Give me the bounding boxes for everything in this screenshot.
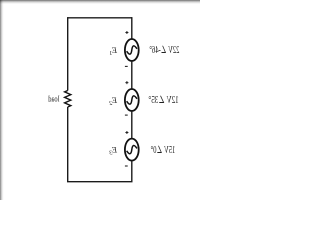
svg-text:15V ∠0°: 15V ∠0° <box>151 145 176 156</box>
wire right branch lower segment <box>67 107 69 182</box>
minus sign of E3 <box>125 165 128 167</box>
page top edge shading <box>0 0 200 4</box>
wire right branch upper segment <box>67 17 69 90</box>
value label 15V 0deg <box>151 145 176 156</box>
svg-text:3: 3 <box>109 151 113 157</box>
plus sign of E1 <box>125 31 128 34</box>
mirrored schematic group <box>48 17 179 182</box>
resistor load <box>65 91 71 108</box>
source E3 <box>125 139 139 161</box>
wire between E2 and E3 <box>131 111 133 139</box>
value label 22V -46deg <box>149 45 179 56</box>
wire left branch lower segment <box>131 161 133 182</box>
label E3 <box>109 145 118 157</box>
plus sign of E3 <box>125 131 128 134</box>
svg-text:12V ∠35°: 12V ∠35° <box>148 95 178 106</box>
wire left branch upper segment <box>131 17 133 39</box>
source E2 <box>125 89 139 111</box>
minus sign of E2 <box>125 114 128 116</box>
wire bottom <box>67 181 133 183</box>
label E1 <box>109 45 118 57</box>
svg-text:load: load <box>48 94 59 103</box>
svg-text:2: 2 <box>109 101 112 107</box>
plus sign of E2 <box>125 81 128 84</box>
svg-text:22V ∠-46°: 22V ∠-46° <box>149 45 179 56</box>
source E1 <box>125 39 139 61</box>
svg-text:1: 1 <box>109 51 112 57</box>
minus sign of E1 <box>125 65 128 67</box>
label load <box>48 94 59 103</box>
page left edge shading <box>0 0 4 200</box>
wire top <box>68 17 132 19</box>
wire between E1 and E2 <box>131 61 133 89</box>
value label 12V 35deg <box>148 95 178 106</box>
label E2 <box>109 95 118 107</box>
